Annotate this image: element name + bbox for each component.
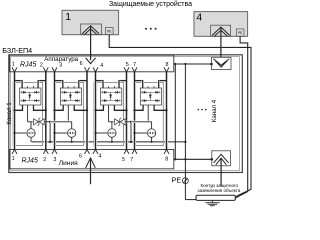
svg-text:8: 8	[165, 156, 168, 162]
channel 1 wire B vertical	[44, 73, 47, 149]
channel 2 GDT to bus	[71, 137, 73, 142]
arrow device 4 to channel-4 port	[220, 27, 222, 65]
svg-text:3: 3	[59, 63, 62, 69]
top pin fork 2	[43, 67, 48, 71]
svg-text:6: 6	[80, 61, 83, 67]
svg-text:3: 3	[53, 157, 56, 163]
junction dot bus 3	[130, 141, 132, 143]
wire V2 to busbar	[185, 199, 197, 201]
channel 3 wire to TVS	[109, 121, 115, 123]
junction dot wire A GDT 1	[13, 132, 15, 134]
channel 1 gas discharge tube F1	[27, 129, 35, 137]
junction dot TVS corner 1	[49, 121, 51, 123]
svg-text:1: 1	[65, 12, 71, 23]
junction dot out B 3	[125, 109, 127, 111]
channel 3 gas discharge tube F3	[108, 129, 116, 137]
PE vertical through terminal	[184, 178, 186, 184]
bottom pin fork 1	[12, 150, 17, 154]
channels ellipsis	[198, 109, 200, 111]
channel 2 protection module U2	[60, 88, 81, 105]
junction dot out B 2	[86, 109, 88, 111]
channel 3 protection module U3	[101, 88, 122, 105]
channel 4 wire jog left	[135, 80, 143, 82]
channel 4 gas discharge tube F4	[147, 129, 155, 137]
junction dot wire A GDT 2	[53, 132, 55, 134]
earthing busbar	[196, 195, 235, 200]
channel 1 TVS to ground corner	[44, 122, 50, 142]
PE vertical V1	[174, 64, 176, 159]
junction dot PE V1 bottom	[174, 158, 176, 160]
svg-text:4: 4	[196, 12, 202, 23]
channel 4 wire jog right	[159, 80, 167, 82]
junction dot channel4 top port	[210, 63, 213, 66]
channel 1 wire to TVS	[28, 121, 34, 123]
protected device box 4	[194, 12, 248, 37]
channel 2 module out jog left	[55, 105, 64, 110]
inner gray frame	[11, 57, 240, 171]
svg-text:PE: PE	[238, 31, 242, 35]
channel 4 wire B vertical	[165, 73, 168, 149]
channel 1 protection module U1	[20, 88, 41, 105]
junction dot out A 2	[53, 109, 55, 111]
channel 2 wire jog left	[55, 80, 63, 82]
channel 3 TVS diode (bidirectional)	[114, 120, 127, 124]
line cable arrow into bottom box	[86, 158, 96, 168]
channel 1 outline frame	[13, 82, 42, 145]
top pin fork 3	[52, 67, 57, 71]
junction dot out B 1	[45, 109, 47, 111]
junction dot out A 3	[94, 109, 96, 111]
bottom pin fork 3	[52, 150, 57, 154]
channel 2 gas discharge tube F2	[68, 129, 76, 137]
svg-text:RJ45: RJ45	[22, 157, 38, 164]
channel 4 GDT to bus	[151, 137, 153, 142]
channel 4 wire row to GDT	[151, 122, 153, 129]
device 1 RJ45 port symbol	[81, 24, 102, 35]
wire PE device4 to right rail	[235, 36, 248, 198]
junction dot GDT bus 3	[111, 141, 113, 143]
channel 1 module ground wire down	[27, 105, 29, 122]
channel 1 wire A vertical	[13, 73, 16, 149]
channel 1 TVS diode (bidirectional)	[33, 120, 46, 124]
channel 2 outline frame	[54, 82, 84, 145]
junction dot GDT bus 4	[151, 141, 153, 143]
junction dot GDT bus 2	[71, 141, 73, 143]
bottom pin fork 8	[164, 150, 169, 154]
svg-text:2: 2	[43, 157, 46, 163]
junction dot PE V2 bottom	[184, 158, 186, 160]
junction dot out B 4	[165, 109, 167, 111]
channel 2 module ground wire down	[67, 105, 69, 122]
channel 4 outline frame	[134, 82, 164, 145]
junction dot PE V1 top	[174, 63, 176, 65]
channel 1 GDT to bus	[30, 137, 32, 142]
svg-text:Защищаемые устройства: Защищаемые устройства	[109, 0, 192, 8]
channel 2 ground wire to left	[50, 121, 72, 123]
arrow device 1 to apparatus port	[90, 26, 92, 60]
junction dot wire A GDT 4	[133, 132, 135, 134]
channel 3 GDT to bus	[111, 137, 113, 142]
ellipsis between devices	[145, 28, 147, 30]
top pin fork 8	[164, 67, 169, 71]
device 4 RJ45 port symbol	[211, 25, 231, 36]
wire PE device1 to right rail	[109, 35, 251, 197]
junction dot wire A GDT 3	[94, 132, 96, 134]
channel 3 wire A vertical	[94, 73, 97, 149]
svg-text:БЗЛ-ЕП4: БЗЛ-ЕП4	[2, 46, 32, 55]
svg-text:5: 5	[126, 62, 129, 68]
junction dot out A 1	[13, 109, 15, 111]
channel 3 module out jog right	[114, 105, 126, 110]
channel 4 protection module U4	[140, 88, 161, 105]
channel 4 module ground wire down	[147, 105, 149, 122]
svg-text:2: 2	[40, 63, 43, 69]
top pin fork 6	[124, 67, 129, 71]
channel 1 wire A to GDT	[15, 132, 26, 134]
svg-text:PE: PE	[107, 30, 111, 34]
wire bottom box to channel 4 bottom port	[174, 158, 212, 160]
top RJ45 connector box (Аппаратура)	[10, 55, 174, 72]
top pin fork 5	[93, 67, 98, 71]
channel 3 TVS to ground corner	[125, 122, 131, 142]
svg-text:7: 7	[133, 62, 136, 68]
svg-text:Контур защитного: Контур защитного	[201, 183, 239, 188]
svg-text:1: 1	[12, 156, 15, 162]
channel 1 module out jog left	[15, 105, 23, 110]
channel 2 wire A to GDT	[55, 132, 67, 134]
channel 1 wire row to GDT	[30, 122, 32, 129]
channel 4 module out jog left	[135, 105, 144, 110]
svg-text:5: 5	[122, 157, 125, 163]
line cable arrow into channel 4 port	[220, 158, 222, 186]
device 4 PE terminal box	[236, 29, 244, 36]
bottom pin fork 7	[132, 150, 137, 154]
channel 1 wire jog left	[15, 80, 23, 82]
svg-text:6: 6	[79, 154, 82, 160]
channel 2 wire jog right	[79, 80, 87, 82]
top pin fork 4	[85, 67, 90, 71]
channel 1 wire jog right	[38, 80, 46, 82]
channel 3 module ground wire down	[108, 105, 110, 122]
svg-text:Линия: Линия	[59, 160, 78, 167]
channel 4 bottom port box	[212, 151, 231, 166]
svg-text:4: 4	[98, 154, 101, 160]
bottom pin fork 6	[124, 150, 129, 154]
channel 3 wire row to GDT	[111, 122, 113, 129]
bottom pin fork 5	[93, 150, 98, 154]
channel 4 ground wire to left	[131, 121, 152, 123]
channel 2 wire A vertical	[53, 73, 56, 149]
PE vertical V2 to earth terminal	[184, 64, 186, 200]
ground bus wire	[32, 141, 186, 143]
svg-text:Канал 4: Канал 4	[211, 99, 218, 122]
channel 2 module out jog right	[74, 105, 87, 110]
wire top box to channel 4 top port	[174, 63, 212, 65]
bottom RJ45 connector box (Линия)	[10, 150, 174, 169]
channel 4 top port box	[212, 57, 232, 69]
device 1 PE terminal box	[105, 28, 113, 35]
channel 4 wire A to GDT	[135, 132, 147, 134]
junction dot V2 ground bus	[184, 141, 186, 143]
protected device box 1	[62, 10, 119, 34]
channel 3 wire jog left	[96, 80, 104, 82]
svg-text:4: 4	[100, 63, 103, 69]
channel 2 wire B vertical	[86, 73, 89, 149]
svg-text:8: 8	[166, 62, 169, 68]
bottom pin fork 2	[43, 150, 48, 154]
svg-text:заземления объекта: заземления объекта	[198, 188, 241, 193]
ground symbol	[211, 200, 213, 202]
main box БЗЛ-ЕП4	[9, 55, 243, 173]
svg-text:PE: PE	[172, 178, 182, 185]
junction dot channel4 bottom port	[211, 158, 214, 161]
junction dot bus 1	[49, 141, 51, 143]
channel 4 wire A vertical	[133, 73, 136, 149]
channel 3 wire jog right	[119, 80, 127, 82]
svg-text:7: 7	[130, 157, 133, 163]
bottom pin fork 4	[85, 150, 90, 154]
junction dot TVS corner 3	[130, 121, 132, 123]
channel 3 outline frame	[94, 82, 124, 145]
channel 3 wire B vertical	[125, 73, 128, 149]
top pin fork 7	[132, 67, 137, 71]
channel 4 module out jog right	[154, 105, 166, 110]
junction dot PE V2 top	[184, 63, 186, 65]
svg-text:RJ45: RJ45	[20, 61, 36, 68]
svg-text:1: 1	[12, 61, 15, 67]
earth terminal symbol	[183, 178, 189, 184]
channel 1 module out jog right	[34, 105, 46, 110]
junction dot out A 4	[133, 109, 135, 111]
channel 3 module out jog left	[96, 105, 104, 110]
top pin fork 1	[12, 67, 17, 71]
channel 2 wire row to GDT	[71, 122, 73, 129]
channel 3 wire A to GDT	[96, 132, 107, 134]
svg-text:Канал 1: Канал 1	[6, 102, 13, 125]
